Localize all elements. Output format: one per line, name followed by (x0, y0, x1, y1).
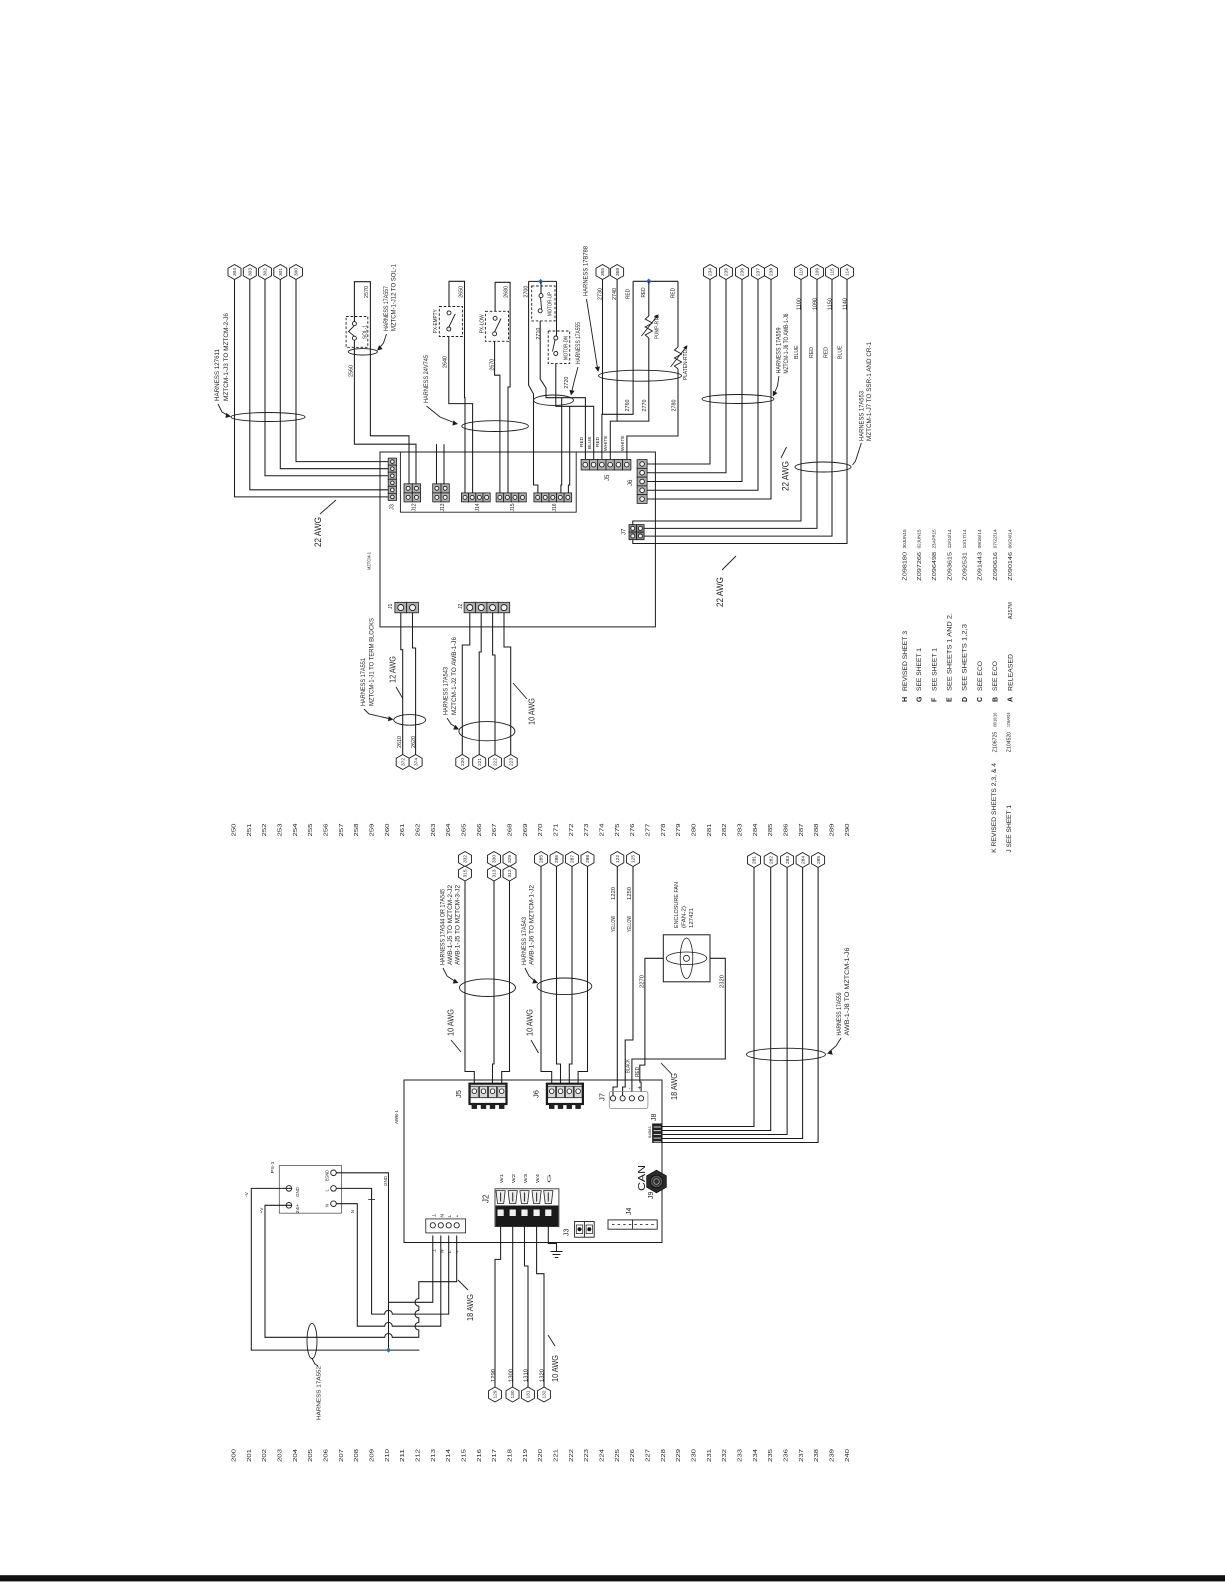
svg-text:06/24/14: 06/24/14 (1007, 529, 1012, 549)
svg-text:251: 251 (247, 823, 253, 836)
svg-text:201: 201 (247, 1449, 253, 1462)
svg-text:J16: J16 (552, 503, 558, 511)
svg-text:285: 285 (816, 856, 822, 864)
svg-text:22 AWG: 22 AWG (715, 577, 725, 607)
svg-text:PX-EMPTY: PX-EMPTY (433, 309, 439, 333)
svg-text:J3: J3 (389, 504, 395, 510)
svg-text:229: 229 (676, 1449, 682, 1462)
svg-text:2700: 2700 (523, 286, 529, 298)
svg-text:23APR15: 23APR15 (931, 529, 936, 549)
svg-text:YELLOW: YELLOW (627, 916, 633, 932)
svg-text:288: 288 (585, 855, 591, 863)
svg-text:2730: 2730 (597, 288, 603, 300)
svg-text:BLUE: BLUE (837, 345, 843, 359)
svg-text:286: 286 (554, 855, 560, 863)
svg-text:1150: 1150 (827, 298, 833, 310)
svg-text:1140: 1140 (842, 298, 848, 310)
svg-text:207: 207 (339, 1449, 345, 1462)
svg-text:10 AWG: 10 AWG (446, 1009, 455, 1036)
svg-text:284: 284 (800, 856, 806, 864)
svg-text:1220: 1220 (611, 887, 617, 900)
svg-text:MOTOR-UP: MOTOR-UP (547, 291, 553, 316)
svg-text:312: 312 (507, 869, 513, 877)
svg-text:W3: W3 (523, 1173, 528, 1183)
svg-text:HARNESS 17A553: HARNESS 17A553 (859, 390, 866, 441)
svg-text:1250: 1250 (627, 887, 633, 900)
svg-text:24+: 24+ (295, 1203, 300, 1214)
svg-text:SEE SHEET 1: SEE SHEET 1 (931, 648, 938, 691)
svg-text:1100: 1100 (796, 298, 802, 310)
svg-text:Z096498: Z096498 (932, 552, 938, 581)
svg-text:⊥: ⊥ (431, 1249, 437, 1253)
svg-text:206: 206 (324, 1449, 330, 1462)
svg-text:Z098180: Z098180 (902, 552, 908, 581)
svg-text:228: 228 (661, 1449, 667, 1462)
svg-text:2770: 2770 (642, 399, 648, 411)
svg-text:313: 313 (492, 869, 498, 877)
svg-text:WHITE: WHITE (603, 436, 609, 451)
svg-text:W4: W4 (535, 1173, 540, 1183)
svg-text:2320: 2320 (719, 975, 725, 988)
svg-text:2740: 2740 (612, 288, 618, 300)
svg-text:300: 300 (294, 268, 300, 276)
svg-text:304: 304 (232, 268, 238, 276)
svg-text:224: 224 (599, 1449, 605, 1462)
svg-text:E: E (947, 697, 954, 702)
svg-text:06/10/16: 06/10/16 (992, 712, 997, 727)
svg-text:270: 270 (538, 823, 544, 836)
svg-text:Z093615: Z093615 (947, 552, 953, 581)
svg-text:RED: RED (823, 347, 829, 358)
svg-text:203: 203 (278, 1449, 284, 1462)
svg-text:221: 221 (554, 1449, 560, 1462)
svg-text:269: 269 (523, 823, 529, 836)
svg-text:J5: J5 (605, 474, 611, 481)
svg-text:250: 250 (232, 823, 238, 836)
svg-text:MZTCM-1-J12 TO SOL-1: MZTCM-1-J12 TO SOL-1 (391, 263, 398, 331)
svg-text:K REVISED SHEETS 2,3, & 4: K REVISED SHEETS 2,3, & 4 (991, 763, 998, 853)
svg-text:231: 231 (707, 1449, 713, 1462)
svg-text:BLACK: BLACK (625, 1058, 631, 1073)
svg-text:283: 283 (737, 823, 743, 836)
svg-text:210: 210 (385, 1449, 391, 1462)
svg-text:256: 256 (324, 823, 330, 836)
svg-text:265: 265 (462, 823, 468, 836)
svg-text:303: 303 (248, 268, 254, 276)
svg-text:280: 280 (691, 823, 697, 836)
svg-text:226: 226 (630, 1449, 636, 1462)
svg-text:301: 301 (278, 268, 284, 276)
svg-text:2610: 2610 (397, 736, 403, 748)
svg-text:122: 122 (615, 855, 621, 863)
svg-text:2640: 2640 (443, 356, 449, 368)
svg-text:HARNESS 17A555: HARNESS 17A555 (575, 322, 582, 364)
svg-text:J12: J12 (411, 503, 417, 511)
svg-text:257: 257 (339, 823, 345, 836)
svg-text:SEE ECO: SEE ECO (977, 661, 984, 691)
svg-text:109: 109 (815, 268, 821, 276)
svg-text:RED: RED (809, 347, 815, 358)
svg-text:233: 233 (737, 1449, 743, 1462)
svg-text:1310: 1310 (524, 1369, 530, 1382)
svg-text:212: 212 (416, 1449, 422, 1462)
svg-text:114: 114 (845, 268, 851, 276)
svg-text:Z097266: Z097266 (917, 552, 923, 581)
svg-text:125: 125 (631, 855, 637, 863)
svg-text:30JUN15: 30JUN15 (902, 529, 907, 549)
svg-text:208: 208 (354, 1449, 360, 1462)
svg-text:AWB-1-J5 TO MZTCM-3-J2: AWB-1-J5 TO MZTCM-3-J2 (455, 884, 462, 965)
svg-text:C: C (977, 697, 984, 702)
svg-text:MZTCM-1-J1 TO TERM BLOCKS: MZTCM-1-J1 TO TERM BLOCKS (369, 618, 376, 706)
svg-text:WHITE: WHITE (620, 436, 626, 451)
svg-text:+: + (456, 1250, 461, 1253)
svg-text:284: 284 (753, 823, 759, 836)
svg-text:N: N (350, 1210, 355, 1213)
svg-text:289: 289 (829, 823, 835, 836)
svg-text:J6: J6 (628, 479, 634, 486)
svg-text:A: A (1007, 697, 1014, 702)
svg-text:355: 355 (600, 268, 606, 276)
svg-text:EGND: EGND (325, 1170, 330, 1181)
svg-text:Z104520: Z104520 (1007, 732, 1013, 753)
svg-text:235: 235 (768, 1449, 774, 1462)
svg-text:278: 278 (661, 823, 667, 836)
svg-text:238: 238 (769, 268, 775, 276)
svg-text:RED: RED (641, 287, 647, 297)
svg-text:A257M: A257M (1008, 602, 1014, 619)
svg-text:L: L (447, 1250, 453, 1253)
svg-text:N: N (439, 1249, 445, 1253)
svg-text:267: 267 (492, 823, 498, 836)
svg-text:110: 110 (799, 268, 805, 276)
svg-text:RED: RED (625, 289, 631, 299)
svg-text:H: H (902, 697, 909, 702)
svg-text:205: 205 (308, 1449, 314, 1462)
svg-text:2620: 2620 (411, 736, 417, 748)
svg-text:12/04/14: 12/04/14 (947, 529, 952, 549)
svg-text:255: 255 (308, 823, 314, 836)
svg-text:302: 302 (263, 268, 269, 276)
svg-text:283: 283 (785, 856, 791, 864)
svg-text:1290: 1290 (491, 1369, 497, 1382)
svg-text:W2: W2 (511, 1173, 516, 1183)
svg-text:RED: RED (595, 436, 601, 447)
svg-text:238: 238 (814, 1449, 820, 1462)
svg-text:Z090146: Z090146 (1008, 552, 1014, 581)
svg-text:374: 374 (413, 758, 419, 766)
svg-text:BLUE: BLUE (794, 345, 800, 359)
svg-text:262: 262 (416, 823, 422, 836)
svg-text:G: G (916, 696, 923, 702)
svg-text:J14: J14 (475, 503, 481, 511)
svg-text:268: 268 (508, 823, 514, 836)
svg-text:10/17/14: 10/17/14 (962, 529, 967, 549)
svg-text:130: 130 (510, 1390, 516, 1398)
svg-text:127421: 127421 (689, 908, 695, 928)
svg-text:275: 275 (615, 823, 621, 836)
svg-text:N: N (325, 1204, 330, 1207)
svg-text:HARNESS 17A551: HARNESS 17A551 (360, 657, 367, 706)
svg-text:HARNESS 17A544 OR 17A545: HARNESS 17A544 OR 17A545 (440, 889, 447, 965)
svg-text:258: 258 (354, 823, 360, 836)
svg-text:252: 252 (262, 823, 268, 836)
svg-text:RELEASED: RELEASED (1007, 654, 1014, 691)
svg-text:330: 330 (492, 855, 498, 863)
svg-text:230: 230 (691, 1449, 697, 1462)
svg-text:+: + (456, 1215, 461, 1218)
svg-text:MZTCM-1: MZTCM-1 (367, 552, 373, 570)
svg-text:264: 264 (446, 823, 452, 836)
svg-text:L: L (447, 1215, 453, 1218)
svg-text:J3: J3 (564, 1229, 571, 1237)
svg-text:227: 227 (645, 1449, 651, 1462)
svg-text:2680: 2680 (504, 286, 510, 298)
svg-text:372: 372 (400, 758, 406, 766)
svg-text:329: 329 (507, 855, 513, 863)
svg-text:HARNESS 17A543: HARNESS 17A543 (521, 916, 528, 965)
svg-text:10 AWG: 10 AWG (527, 698, 536, 725)
svg-text:2720: 2720 (564, 377, 570, 389)
svg-text:HARNESS 17A557: HARNESS 17A557 (383, 286, 390, 331)
svg-text:J7: J7 (622, 528, 628, 535)
svg-text:253: 253 (278, 823, 284, 836)
svg-text:ENCLOSURE FAN: ENCLOSURE FAN (674, 882, 680, 928)
svg-text:18 AWG: 18 AWG (466, 1294, 475, 1321)
svg-text:F: F (931, 697, 938, 702)
svg-text:Z091443: Z091443 (977, 552, 983, 581)
svg-text:1300: 1300 (508, 1369, 514, 1382)
svg-text:22 AWG: 22 AWG (781, 461, 791, 491)
svg-text:RED: RED (670, 288, 676, 298)
svg-text:115: 115 (830, 268, 836, 276)
svg-text:PUMP-RTD: PUMP-RTD (654, 315, 660, 339)
svg-text:131: 131 (526, 1390, 532, 1398)
svg-text:222: 222 (493, 758, 499, 766)
svg-text:236: 236 (740, 268, 746, 276)
svg-text:2650: 2650 (458, 286, 464, 298)
svg-text:332: 332 (463, 855, 469, 863)
svg-text:HARNESS 127611: HARNESS 127611 (214, 348, 221, 401)
svg-text:18 AWG: 18 AWG (670, 1073, 679, 1100)
svg-text:HARNESS 24V745: HARNESS 24V745 (423, 354, 430, 403)
svg-text:211: 211 (400, 1449, 406, 1462)
svg-text:AWB-1-J6 TO MZTCM-1-J2: AWB-1-J6 TO MZTCM-1-J2 (529, 884, 536, 965)
svg-text:SEE SHEETS 1,2,3: SEE SHEETS 1,2,3 (962, 624, 969, 691)
svg-text:+: + (638, 1086, 644, 1090)
svg-text:266: 266 (477, 823, 483, 836)
svg-text:287: 287 (570, 855, 576, 863)
svg-text:J2: J2 (458, 604, 464, 610)
svg-text:J15: J15 (510, 503, 516, 511)
svg-text:235: 235 (724, 268, 730, 276)
svg-text:2670: 2670 (489, 359, 495, 371)
svg-text:10 AWG: 10 AWG (551, 1355, 560, 1382)
svg-text:22 AWG: 22 AWG (313, 517, 323, 547)
svg-text:237: 237 (799, 1449, 805, 1462)
svg-text:259: 259 (370, 823, 376, 836)
svg-text:214: 214 (446, 1449, 452, 1462)
svg-text:09/26/14: 09/26/14 (977, 529, 982, 549)
svg-text:J SEE SHEET 1: J SEE SHEET 1 (1006, 805, 1013, 853)
svg-text:261: 261 (400, 823, 406, 836)
svg-text:217: 217 (492, 1449, 498, 1462)
svg-text:HARNESS 17A543: HARNESS 17A543 (443, 666, 450, 715)
svg-text:SOL-1: SOL-1 (362, 325, 368, 339)
svg-text:272: 272 (569, 823, 575, 836)
svg-text:2780: 2780 (671, 399, 677, 411)
svg-text:282: 282 (722, 823, 728, 836)
svg-text:282: 282 (768, 856, 774, 864)
svg-text:281: 281 (752, 856, 758, 864)
svg-text:RED: RED (579, 436, 585, 447)
svg-text:-V: -V (244, 1191, 250, 1197)
svg-text:216: 216 (477, 1449, 483, 1462)
svg-text:273: 273 (584, 823, 590, 836)
svg-text:MZTCM-1-J7 TO SSR-1 AND CR-1: MZTCM-1-J7 TO SSR-1 AND CR-1 (866, 341, 873, 441)
svg-text:GND: GND (383, 1176, 388, 1186)
svg-text:J4: J4 (626, 1208, 633, 1216)
svg-text:MZTCM-1-J2 TO AWB-1-J6: MZTCM-1-J2 TO AWB-1-J6 (451, 636, 458, 715)
svg-text:1320: 1320 (540, 1369, 546, 1382)
svg-text:2760: 2760 (625, 399, 631, 411)
svg-text:W1: W1 (499, 1173, 504, 1183)
svg-text:277: 277 (645, 823, 651, 836)
svg-text:209: 209 (370, 1449, 376, 1462)
svg-text:263: 263 (431, 823, 437, 836)
svg-text:129: 129 (493, 1390, 499, 1398)
svg-text:+V: +V (259, 1207, 265, 1214)
svg-text:236: 236 (783, 1449, 789, 1462)
svg-text:Z106725: Z106725 (993, 732, 999, 753)
svg-text:D: D (962, 697, 969, 702)
svg-text:276: 276 (630, 823, 636, 836)
svg-text:234: 234 (708, 268, 714, 276)
svg-text:223: 223 (508, 758, 514, 766)
svg-text:12 AWG: 12 AWG (388, 656, 397, 683)
svg-text:⊥: ⊥ (431, 1213, 437, 1217)
svg-text:1090: 1090 (812, 298, 818, 310)
svg-text:290: 290 (845, 823, 851, 836)
svg-text:MOTOR-DN: MOTOR-DN (563, 336, 569, 360)
svg-text:2710: 2710 (536, 328, 542, 340)
svg-text:215: 215 (462, 1449, 468, 1462)
svg-text:220: 220 (538, 1449, 544, 1462)
svg-text:237: 237 (756, 268, 762, 276)
svg-text:286: 286 (783, 823, 789, 836)
svg-text:2570: 2570 (364, 286, 370, 298)
svg-text:G: G (547, 1172, 552, 1183)
svg-text:CAN: CAN (636, 1165, 648, 1191)
svg-text:2270: 2270 (639, 975, 645, 988)
svg-text:287: 287 (799, 823, 805, 836)
svg-text:HARNESS 17A552: HARNESS 17A552 (317, 1366, 323, 1420)
svg-text:279: 279 (676, 823, 682, 836)
svg-text:221: 221 (477, 758, 483, 766)
svg-text:213: 213 (431, 1449, 437, 1462)
svg-text:MZTCM-1-J3 TO MZTCM-2-J6: MZTCM-1-J3 TO MZTCM-2-J6 (223, 312, 230, 401)
svg-text:SEE SHEETS 1 AND 2.: SEE SHEETS 1 AND 2. (947, 613, 954, 691)
svg-text:J6: J6 (532, 1090, 541, 1098)
svg-text:234: 234 (753, 1449, 759, 1462)
svg-text:PS-1: PS-1 (270, 1161, 276, 1173)
svg-text:SEE SHEET 1: SEE SHEET 1 (916, 648, 923, 691)
svg-text:HARNESS 17A559: HARNESS 17A559 (776, 327, 783, 373)
svg-text:285: 285 (768, 823, 774, 836)
svg-text:N: N (439, 1214, 445, 1218)
svg-text:132: 132 (542, 1390, 548, 1398)
svg-text:AWB-1-J5 TO MZTCM-2-J2: AWB-1-J5 TO MZTCM-2-J2 (447, 884, 454, 965)
svg-text:02JUN15: 02JUN15 (916, 529, 921, 549)
svg-text:GND: GND (295, 1187, 300, 1197)
svg-text:SEE ECO: SEE ECO (992, 661, 999, 691)
svg-text:PX-LOW: PX-LOW (479, 314, 485, 333)
svg-text:J13: J13 (440, 503, 446, 511)
svg-text:Z092531: Z092531 (962, 552, 968, 581)
svg-text:239: 239 (829, 1449, 835, 1462)
svg-text:240: 240 (845, 1449, 851, 1462)
svg-text:17MAR16: 17MAR16 (1006, 712, 1011, 727)
svg-text:219: 219 (523, 1449, 529, 1462)
svg-text:Z090616: Z090616 (993, 552, 999, 581)
svg-text:368: 368 (615, 268, 621, 276)
svg-text:AWB-1-J8 TO MZTCM-1-J6: AWB-1-J8 TO MZTCM-1-J6 (844, 947, 851, 1036)
svg-text:285: 285 (539, 855, 545, 863)
svg-text:260: 260 (385, 823, 391, 836)
svg-text:J5: J5 (454, 1090, 463, 1098)
svg-text:B: B (992, 697, 999, 702)
svg-text:274: 274 (599, 823, 605, 836)
svg-text:254: 254 (293, 823, 299, 836)
svg-text:YELLOW: YELLOW (611, 916, 617, 932)
svg-text:281: 281 (707, 823, 713, 836)
svg-text:07/22/14: 07/22/14 (992, 529, 997, 549)
svg-text:288: 288 (814, 823, 820, 836)
svg-text:2560: 2560 (348, 365, 354, 377)
svg-text:HARNESS 17B788: HARNESS 17B788 (583, 245, 590, 296)
svg-text:HARNESS 17A559: HARNESS 17A559 (836, 992, 843, 1035)
svg-text:200: 200 (232, 1449, 238, 1462)
svg-text:REVISED SHEET 3: REVISED SHEET 3 (902, 631, 909, 691)
svg-text:225: 225 (615, 1449, 621, 1462)
svg-text:218: 218 (508, 1449, 514, 1462)
svg-text:J2: J2 (481, 1194, 490, 1203)
svg-text:J8: J8 (651, 1114, 658, 1122)
svg-text:AWB-1: AWB-1 (394, 1110, 400, 1124)
svg-text:(FAN-2): (FAN-2) (681, 906, 687, 928)
svg-text:232: 232 (722, 1449, 728, 1462)
svg-text:BLUE: BLUE (587, 436, 593, 449)
svg-text:222: 222 (569, 1449, 575, 1462)
svg-text:J9: J9 (648, 1192, 655, 1200)
svg-text:202: 202 (262, 1449, 268, 1462)
svg-text:64581: 64581 (648, 1126, 652, 1138)
svg-text:10 AWG: 10 AWG (525, 1009, 534, 1036)
svg-text:271: 271 (554, 823, 560, 836)
svg-text:PLATEN-RTD: PLATEN-RTD (683, 350, 689, 380)
svg-text:220: 220 (460, 758, 466, 766)
svg-text:223: 223 (584, 1449, 590, 1462)
svg-text:204: 204 (293, 1449, 299, 1462)
svg-text:315: 315 (463, 869, 469, 877)
svg-text:MZTCM-1-J6 TO AWB-1-J8: MZTCM-1-J6 TO AWB-1-J8 (783, 313, 790, 373)
svg-text:-: - (628, 1088, 634, 1090)
svg-text:J1: J1 (388, 604, 394, 610)
svg-text:J7: J7 (598, 1093, 607, 1101)
